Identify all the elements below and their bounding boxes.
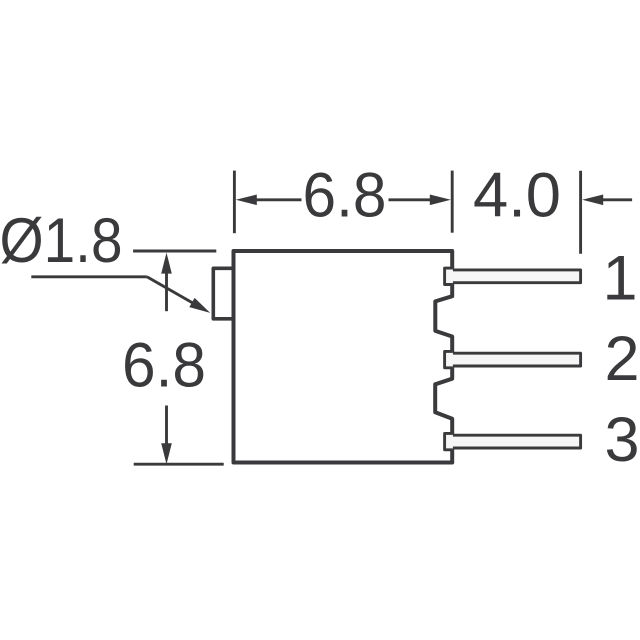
svg-text:2: 2 xyxy=(604,324,639,394)
svg-text:Ø1.8: Ø1.8 xyxy=(0,206,123,276)
svg-text:1: 1 xyxy=(602,244,637,314)
svg-text:4.0: 4.0 xyxy=(473,161,561,231)
svg-text:6.8: 6.8 xyxy=(122,331,206,401)
svg-text:3: 3 xyxy=(604,405,639,475)
svg-text:6.8: 6.8 xyxy=(303,161,387,231)
